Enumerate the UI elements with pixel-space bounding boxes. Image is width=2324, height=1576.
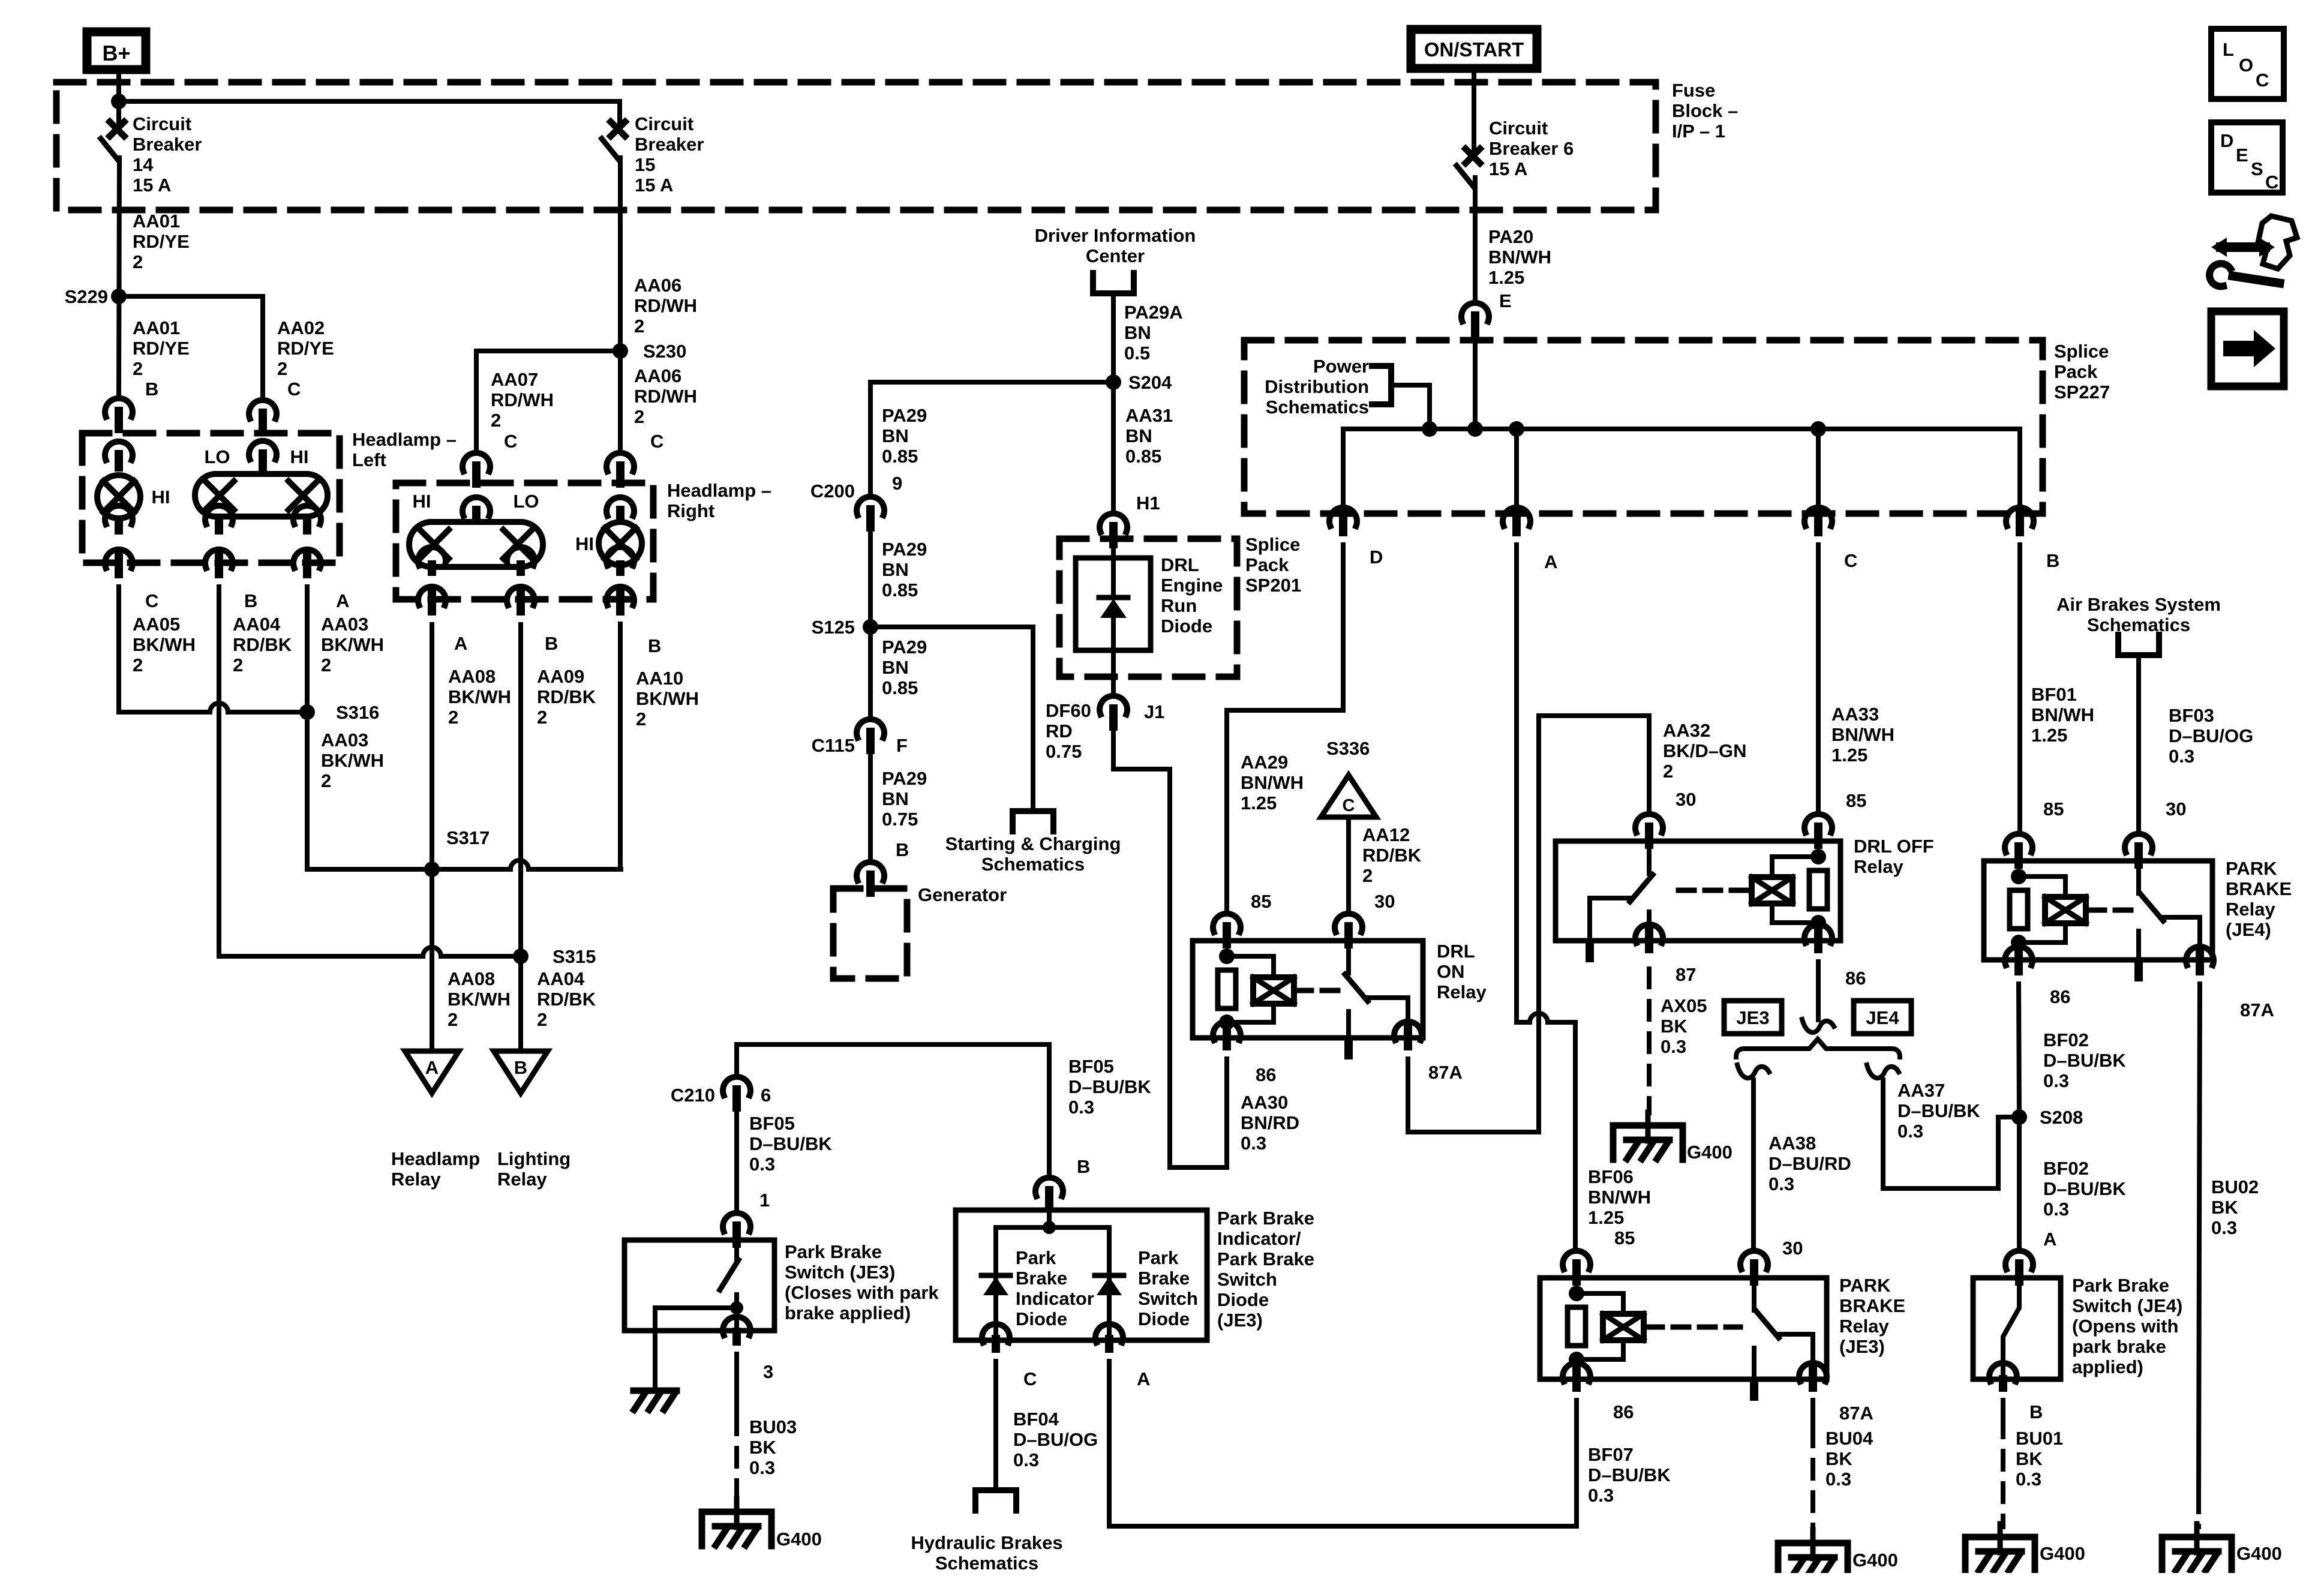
svg-text:B: B [648, 635, 661, 656]
svg-text:Park Brake: Park Brake [1217, 1208, 1314, 1229]
svg-text:BK/WH: BK/WH [133, 634, 196, 655]
svg-text:2: 2 [277, 358, 287, 379]
svg-text:Pack: Pack [1245, 554, 1289, 575]
svg-text:B: B [896, 839, 909, 860]
svg-text:RD/WH: RD/WH [634, 386, 697, 407]
svg-text:6: 6 [761, 1085, 771, 1106]
svg-text:87A: 87A [1428, 1062, 1463, 1083]
svg-text:2: 2 [636, 709, 646, 730]
svg-text:85: 85 [2043, 798, 2064, 819]
svg-text:15: 15 [635, 154, 655, 175]
svg-text:PA29: PA29 [882, 539, 927, 560]
svg-text:BN: BN [1124, 322, 1151, 343]
svg-text:(Closes with park: (Closes with park [785, 1282, 939, 1303]
svg-text:G400: G400 [1687, 1142, 1733, 1163]
svg-text:B: B [1077, 1156, 1090, 1177]
svg-text:B: B [514, 1057, 527, 1078]
svg-text:BN: BN [882, 657, 909, 678]
svg-text:PA29: PA29 [882, 768, 927, 789]
svg-text:RD/BK: RD/BK [537, 686, 596, 707]
svg-text:Splice: Splice [2054, 341, 2109, 362]
svg-text:D–BU/BK: D–BU/BK [749, 1133, 832, 1154]
svg-text:Starting & Charging: Starting & Charging [945, 833, 1121, 854]
svg-text:S: S [2251, 158, 2263, 179]
svg-text:SP227: SP227 [2054, 382, 2110, 403]
svg-text:0.85: 0.85 [882, 446, 918, 467]
svg-text:Switch (JE4): Switch (JE4) [2072, 1295, 2182, 1316]
svg-text:Relay: Relay [497, 1169, 547, 1190]
svg-text:RD/YE: RD/YE [133, 338, 190, 359]
svg-text:86: 86 [1845, 968, 1866, 989]
svg-text:LO: LO [204, 446, 230, 467]
svg-text:0.3: 0.3 [2211, 1217, 2237, 1238]
svg-text:BF02: BF02 [2043, 1029, 2089, 1050]
svg-text:AA04: AA04 [537, 968, 585, 989]
svg-text:2: 2 [491, 410, 501, 431]
svg-text:Schematics: Schematics [935, 1553, 1038, 1573]
svg-text:AA06: AA06 [634, 365, 681, 386]
svg-text:Diode: Diode [1217, 1289, 1269, 1310]
svg-text:Switch: Switch [1138, 1288, 1198, 1309]
svg-text:D–BU/BK: D–BU/BK [2043, 1050, 2126, 1071]
svg-text:AA38: AA38 [1768, 1133, 1816, 1154]
svg-text:S317: S317 [446, 827, 490, 848]
svg-text:BK/WH: BK/WH [636, 688, 699, 709]
svg-text:BK/WH: BK/WH [448, 989, 511, 1010]
svg-text:BU01: BU01 [2016, 1428, 2063, 1449]
svg-text:Headlamp: Headlamp [391, 1148, 480, 1169]
svg-text:D–BU/BK: D–BU/BK [1897, 1100, 1980, 1121]
svg-text:Switch: Switch [1217, 1269, 1277, 1290]
svg-text:PA29A: PA29A [1124, 302, 1183, 323]
svg-text:B: B [244, 590, 257, 611]
svg-text:Breaker: Breaker [133, 134, 202, 155]
svg-text:I/P – 1: I/P – 1 [1672, 121, 1725, 142]
svg-text:AX05: AX05 [1661, 995, 1707, 1016]
svg-text:S315: S315 [553, 946, 596, 967]
svg-text:BK/WH: BK/WH [448, 686, 511, 707]
svg-text:0.3: 0.3 [1897, 1121, 1923, 1142]
svg-text:0.5: 0.5 [1124, 343, 1150, 364]
svg-text:BK: BK [1825, 1448, 1852, 1469]
svg-text:BRAKE: BRAKE [2226, 878, 2292, 899]
svg-text:RD/BK: RD/BK [537, 989, 596, 1010]
svg-text:B: B [2046, 550, 2059, 571]
svg-text:PARK: PARK [1839, 1275, 1891, 1296]
svg-text:1: 1 [759, 1190, 770, 1211]
svg-text:0.3: 0.3 [2043, 1199, 2069, 1220]
svg-text:D–BU/BK: D–BU/BK [1068, 1076, 1151, 1097]
svg-text:Generator: Generator [918, 884, 1007, 905]
svg-text:PA29: PA29 [882, 405, 927, 426]
svg-text:HI: HI [413, 491, 431, 512]
svg-text:Diode: Diode [1161, 616, 1212, 637]
svg-text:1.25: 1.25 [1831, 745, 1867, 766]
svg-text:PA29: PA29 [882, 637, 927, 658]
svg-text:0.3: 0.3 [1241, 1133, 1266, 1154]
svg-text:BN: BN [1125, 425, 1152, 446]
svg-text:AA02: AA02 [277, 317, 325, 338]
svg-text:A: A [454, 633, 467, 654]
svg-text:Hydraulic Brakes: Hydraulic Brakes [911, 1532, 1062, 1553]
svg-text:HI: HI [575, 533, 594, 554]
svg-text:C: C [1343, 796, 1355, 815]
svg-text:14: 14 [133, 154, 154, 175]
svg-text:S316: S316 [336, 702, 379, 723]
svg-text:AA05: AA05 [133, 614, 180, 635]
svg-text:AA31: AA31 [1125, 405, 1173, 426]
svg-text:Indicator/: Indicator/ [1217, 1228, 1301, 1249]
svg-text:JE4: JE4 [1866, 1007, 1899, 1028]
svg-text:Power: Power [1313, 356, 1369, 377]
svg-text:Diode: Diode [1138, 1308, 1190, 1329]
svg-text:87A: 87A [1839, 1403, 1873, 1424]
svg-text:BF04: BF04 [1013, 1409, 1059, 1430]
svg-text:AA08: AA08 [448, 666, 496, 687]
svg-text:BF02: BF02 [2043, 1158, 2089, 1179]
svg-text:BK/WH: BK/WH [321, 634, 384, 655]
svg-text:AA33: AA33 [1831, 704, 1879, 725]
svg-text:C: C [145, 590, 158, 611]
svg-text:Indicator: Indicator [1016, 1288, 1094, 1309]
svg-text:RD: RD [1046, 721, 1073, 742]
svg-text:0.3: 0.3 [749, 1154, 775, 1175]
svg-text:BK: BK [1661, 1016, 1688, 1037]
svg-text:DF60: DF60 [1046, 700, 1091, 721]
svg-text:Park: Park [1016, 1247, 1056, 1268]
svg-text:BF07: BF07 [1588, 1444, 1634, 1465]
svg-text:G400: G400 [776, 1529, 822, 1550]
svg-text:Circuit: Circuit [133, 113, 191, 134]
svg-text:BN/WH: BN/WH [1488, 247, 1551, 268]
svg-text:85: 85 [1614, 1227, 1635, 1248]
svg-text:C200: C200 [810, 481, 855, 502]
svg-text:E: E [2236, 145, 2248, 166]
svg-text:C: C [1023, 1368, 1037, 1389]
svg-text:BU02: BU02 [2211, 1176, 2259, 1197]
svg-text:DRL OFF: DRL OFF [1854, 836, 1934, 857]
svg-text:G400: G400 [2236, 1543, 2282, 1564]
svg-text:PA20: PA20 [1488, 226, 1533, 247]
svg-text:A: A [1137, 1368, 1150, 1389]
svg-text:RD/WH: RD/WH [634, 295, 697, 316]
svg-text:DRL: DRL [1437, 941, 1475, 962]
svg-text:2: 2 [448, 707, 458, 728]
svg-text:BN/WH: BN/WH [2031, 704, 2094, 725]
svg-text:D–BU/OG: D–BU/OG [1013, 1429, 1098, 1450]
svg-text:30: 30 [1676, 789, 1696, 810]
svg-text:Relay: Relay [1839, 1316, 1889, 1337]
svg-text:S336: S336 [1326, 738, 1370, 759]
svg-text:1.25: 1.25 [1241, 792, 1277, 813]
svg-text:C210: C210 [671, 1085, 715, 1106]
svg-text:2: 2 [233, 655, 243, 676]
svg-text:Brake: Brake [1138, 1268, 1190, 1289]
svg-text:AA12: AA12 [1362, 824, 1410, 845]
svg-text:0.85: 0.85 [1125, 446, 1161, 467]
svg-text:J1: J1 [1144, 701, 1164, 722]
svg-text:Run: Run [1161, 595, 1197, 616]
svg-text:0.3: 0.3 [2043, 1070, 2069, 1091]
svg-text:O: O [2239, 55, 2253, 76]
svg-text:Diode: Diode [1016, 1308, 1067, 1329]
svg-text:85: 85 [1846, 790, 1866, 811]
svg-text:C: C [2256, 70, 2269, 91]
svg-text:BN: BN [882, 425, 909, 446]
svg-text:C: C [2265, 172, 2278, 193]
svg-text:BN/WH: BN/WH [1831, 724, 1894, 745]
svg-text:0.3: 0.3 [1825, 1469, 1851, 1490]
svg-text:G400: G400 [1852, 1550, 1898, 1571]
svg-text:S204: S204 [1128, 372, 1172, 393]
svg-text:2: 2 [133, 655, 143, 676]
svg-text:2: 2 [133, 251, 143, 272]
svg-text:LO: LO [513, 491, 539, 512]
svg-text:(JE3): (JE3) [1839, 1336, 1885, 1357]
svg-text:Center: Center [1086, 245, 1145, 266]
svg-text:2: 2 [537, 707, 547, 728]
svg-text:0.75: 0.75 [1046, 741, 1082, 762]
svg-text:2: 2 [133, 358, 143, 379]
svg-text:RD/BK: RD/BK [1362, 845, 1422, 866]
svg-text:B: B [545, 633, 558, 654]
svg-text:RD/BK: RD/BK [233, 634, 292, 655]
svg-text:A: A [425, 1057, 439, 1078]
svg-text:(Opens with: (Opens with [2072, 1316, 2178, 1337]
svg-text:Brake: Brake [1016, 1268, 1067, 1289]
svg-text:A: A [1544, 551, 1557, 572]
svg-text:Lighting: Lighting [497, 1148, 571, 1169]
svg-text:2: 2 [321, 655, 331, 676]
svg-text:DRL: DRL [1161, 554, 1199, 575]
svg-text:86: 86 [2050, 986, 2070, 1007]
svg-text:87: 87 [1676, 964, 1696, 985]
svg-text:2: 2 [321, 770, 331, 791]
svg-text:D: D [1370, 547, 1383, 568]
svg-text:C: C [1844, 550, 1857, 571]
svg-text:Relay: Relay [1854, 856, 1903, 877]
svg-text:B: B [2029, 1401, 2043, 1422]
svg-text:RD/YE: RD/YE [133, 231, 190, 252]
svg-text:BN/RD: BN/RD [1241, 1112, 1299, 1133]
svg-text:BK: BK [2211, 1197, 2238, 1218]
svg-text:BK/D–GN: BK/D–GN [1663, 740, 1747, 761]
svg-text:BU04: BU04 [1825, 1428, 1873, 1449]
svg-text:brake applied): brake applied) [785, 1302, 911, 1323]
svg-text:BRAKE: BRAKE [1839, 1295, 1905, 1316]
svg-text:L: L [2223, 39, 2234, 60]
svg-text:Schematics: Schematics [981, 854, 1085, 875]
svg-text:Schematics: Schematics [1266, 397, 1369, 418]
svg-text:Headlamp –: Headlamp – [667, 480, 771, 501]
svg-text:0.3: 0.3 [2169, 746, 2194, 767]
svg-text:D–BU/BK: D–BU/BK [2043, 1178, 2126, 1199]
svg-text:RD/WH: RD/WH [491, 389, 554, 410]
svg-text:BF01: BF01 [2031, 684, 2077, 705]
svg-text:E: E [1499, 290, 1512, 311]
svg-text:BK: BK [749, 1437, 776, 1458]
svg-text:2: 2 [634, 316, 644, 337]
svg-text:ON/START: ON/START [1424, 38, 1524, 61]
svg-text:2: 2 [1362, 865, 1373, 886]
svg-text:0.3: 0.3 [1661, 1036, 1686, 1057]
svg-text:Engine: Engine [1161, 575, 1223, 596]
svg-text:Air Brakes System: Air Brakes System [2056, 594, 2221, 615]
svg-text:Park Brake: Park Brake [2072, 1275, 2169, 1296]
svg-text:BN: BN [882, 788, 909, 809]
svg-text:S230: S230 [643, 341, 686, 362]
svg-text:0.3: 0.3 [1588, 1485, 1614, 1506]
svg-text:AA32: AA32 [1663, 720, 1710, 741]
svg-text:F: F [896, 735, 908, 756]
svg-text:AA09: AA09 [537, 666, 584, 687]
svg-text:AA37: AA37 [1897, 1080, 1945, 1101]
svg-text:15 A: 15 A [1489, 158, 1527, 179]
svg-text:0.3: 0.3 [749, 1457, 775, 1478]
svg-text:AA03: AA03 [321, 614, 368, 635]
svg-text:AA10: AA10 [636, 668, 683, 689]
svg-text:B: B [145, 379, 158, 400]
svg-text:BN/WH: BN/WH [1588, 1187, 1651, 1208]
svg-text:30: 30 [2166, 798, 2186, 819]
svg-text:(JE3): (JE3) [1217, 1310, 1263, 1331]
svg-text:Circuit: Circuit [635, 113, 693, 134]
svg-text:Block –: Block – [1672, 100, 1738, 121]
svg-text:86: 86 [1256, 1064, 1276, 1085]
svg-text:D–BU/BK: D–BU/BK [1588, 1464, 1671, 1485]
svg-text:S125: S125 [812, 617, 855, 638]
svg-text:C: C [504, 431, 517, 452]
svg-text:Distribution: Distribution [1265, 376, 1369, 397]
svg-text:BK: BK [2016, 1448, 2043, 1469]
svg-text:A: A [2043, 1229, 2056, 1250]
svg-text:S229: S229 [65, 286, 108, 307]
svg-text:Relay: Relay [1437, 981, 1487, 1002]
svg-text:HI: HI [290, 446, 309, 467]
svg-text:Schematics: Schematics [2087, 614, 2190, 635]
svg-text:S208: S208 [2040, 1107, 2083, 1128]
svg-text:Park: Park [1138, 1247, 1179, 1268]
svg-text:BF03: BF03 [2169, 705, 2214, 726]
svg-text:0.85: 0.85 [882, 580, 918, 601]
svg-text:BN: BN [882, 559, 909, 580]
svg-text:Circuit: Circuit [1489, 118, 1548, 139]
svg-text:1.25: 1.25 [1488, 267, 1524, 288]
svg-text:applied): applied) [2072, 1356, 2143, 1377]
svg-text:87A: 87A [2240, 999, 2274, 1020]
svg-text:Driver Information: Driver Information [1035, 225, 1196, 246]
svg-text:0.75: 0.75 [882, 809, 918, 830]
svg-text:AA06: AA06 [634, 275, 681, 296]
svg-text:86: 86 [1613, 1401, 1634, 1422]
svg-text:85: 85 [1251, 891, 1271, 912]
svg-text:30: 30 [1782, 1238, 1803, 1259]
svg-text:Relay: Relay [391, 1169, 441, 1190]
svg-text:Splice: Splice [1245, 534, 1300, 555]
svg-text:BF05: BF05 [1068, 1056, 1114, 1077]
svg-text:Pack: Pack [2054, 361, 2098, 382]
svg-text:9: 9 [892, 473, 902, 494]
svg-text:AA04: AA04 [233, 614, 281, 635]
svg-text:park brake: park brake [2072, 1336, 2166, 1357]
svg-text:PARK: PARK [2226, 858, 2277, 879]
svg-text:2: 2 [634, 406, 644, 427]
svg-text:BF05: BF05 [749, 1113, 795, 1134]
svg-text:AA29: AA29 [1241, 752, 1288, 773]
svg-text:AA08: AA08 [448, 968, 495, 989]
svg-text:D–BU/RD: D–BU/RD [1768, 1153, 1851, 1174]
svg-text:BK/WH: BK/WH [321, 750, 384, 771]
svg-text:Fuse: Fuse [1672, 80, 1715, 101]
svg-text:C: C [650, 431, 663, 452]
svg-text:RD/YE: RD/YE [277, 338, 334, 359]
svg-text:30: 30 [1374, 891, 1395, 912]
svg-text:AA07: AA07 [491, 369, 538, 390]
svg-text:Breaker 6: Breaker 6 [1489, 138, 1574, 159]
svg-text:BU03: BU03 [749, 1416, 797, 1437]
svg-text:1.25: 1.25 [2031, 725, 2067, 746]
svg-text:A: A [336, 590, 349, 611]
svg-text:Left: Left [352, 449, 386, 470]
svg-text:0.3: 0.3 [1768, 1173, 1794, 1194]
svg-text:AA30: AA30 [1241, 1092, 1288, 1113]
svg-text:AA03: AA03 [321, 730, 368, 751]
svg-text:G400: G400 [2040, 1543, 2085, 1564]
svg-text:15 A: 15 A [133, 175, 171, 196]
svg-text:Headlamp –: Headlamp – [352, 429, 457, 450]
svg-text:2: 2 [1663, 761, 1673, 782]
svg-text:2: 2 [448, 1009, 458, 1030]
svg-text:D–BU/OG: D–BU/OG [2169, 725, 2253, 746]
svg-text:Breaker: Breaker [635, 134, 704, 155]
svg-text:Park Brake: Park Brake [1217, 1248, 1314, 1269]
svg-text:2: 2 [537, 1009, 547, 1030]
svg-text:Park Brake: Park Brake [785, 1241, 882, 1262]
svg-text:AA01: AA01 [133, 317, 180, 338]
svg-text:3: 3 [763, 1361, 773, 1382]
svg-text:Relay: Relay [2226, 899, 2275, 920]
svg-text:ON: ON [1437, 961, 1465, 982]
svg-text:AA01: AA01 [133, 211, 180, 232]
svg-text:HI: HI [152, 487, 170, 508]
svg-text:C115: C115 [812, 735, 855, 756]
svg-text:B+: B+ [102, 41, 130, 65]
svg-text:(JE4): (JE4) [2226, 919, 2271, 940]
svg-text:0.3: 0.3 [1068, 1097, 1094, 1118]
svg-text:0.85: 0.85 [882, 677, 918, 698]
svg-text:0.3: 0.3 [1013, 1449, 1039, 1470]
svg-text:1.25: 1.25 [1588, 1207, 1624, 1228]
svg-text:Right: Right [667, 500, 714, 521]
svg-text:D: D [2220, 130, 2233, 151]
svg-text:C: C [287, 379, 301, 400]
svg-text:H1: H1 [1136, 493, 1160, 514]
svg-text:0.3: 0.3 [2016, 1469, 2041, 1490]
svg-text:15 A: 15 A [635, 175, 673, 196]
svg-text:Switch (JE3): Switch (JE3) [785, 1262, 895, 1283]
svg-text:BF06: BF06 [1588, 1166, 1634, 1187]
svg-text:JE3: JE3 [1736, 1007, 1769, 1028]
svg-text:BN/WH: BN/WH [1241, 772, 1304, 793]
svg-text:SP201: SP201 [1245, 575, 1301, 596]
